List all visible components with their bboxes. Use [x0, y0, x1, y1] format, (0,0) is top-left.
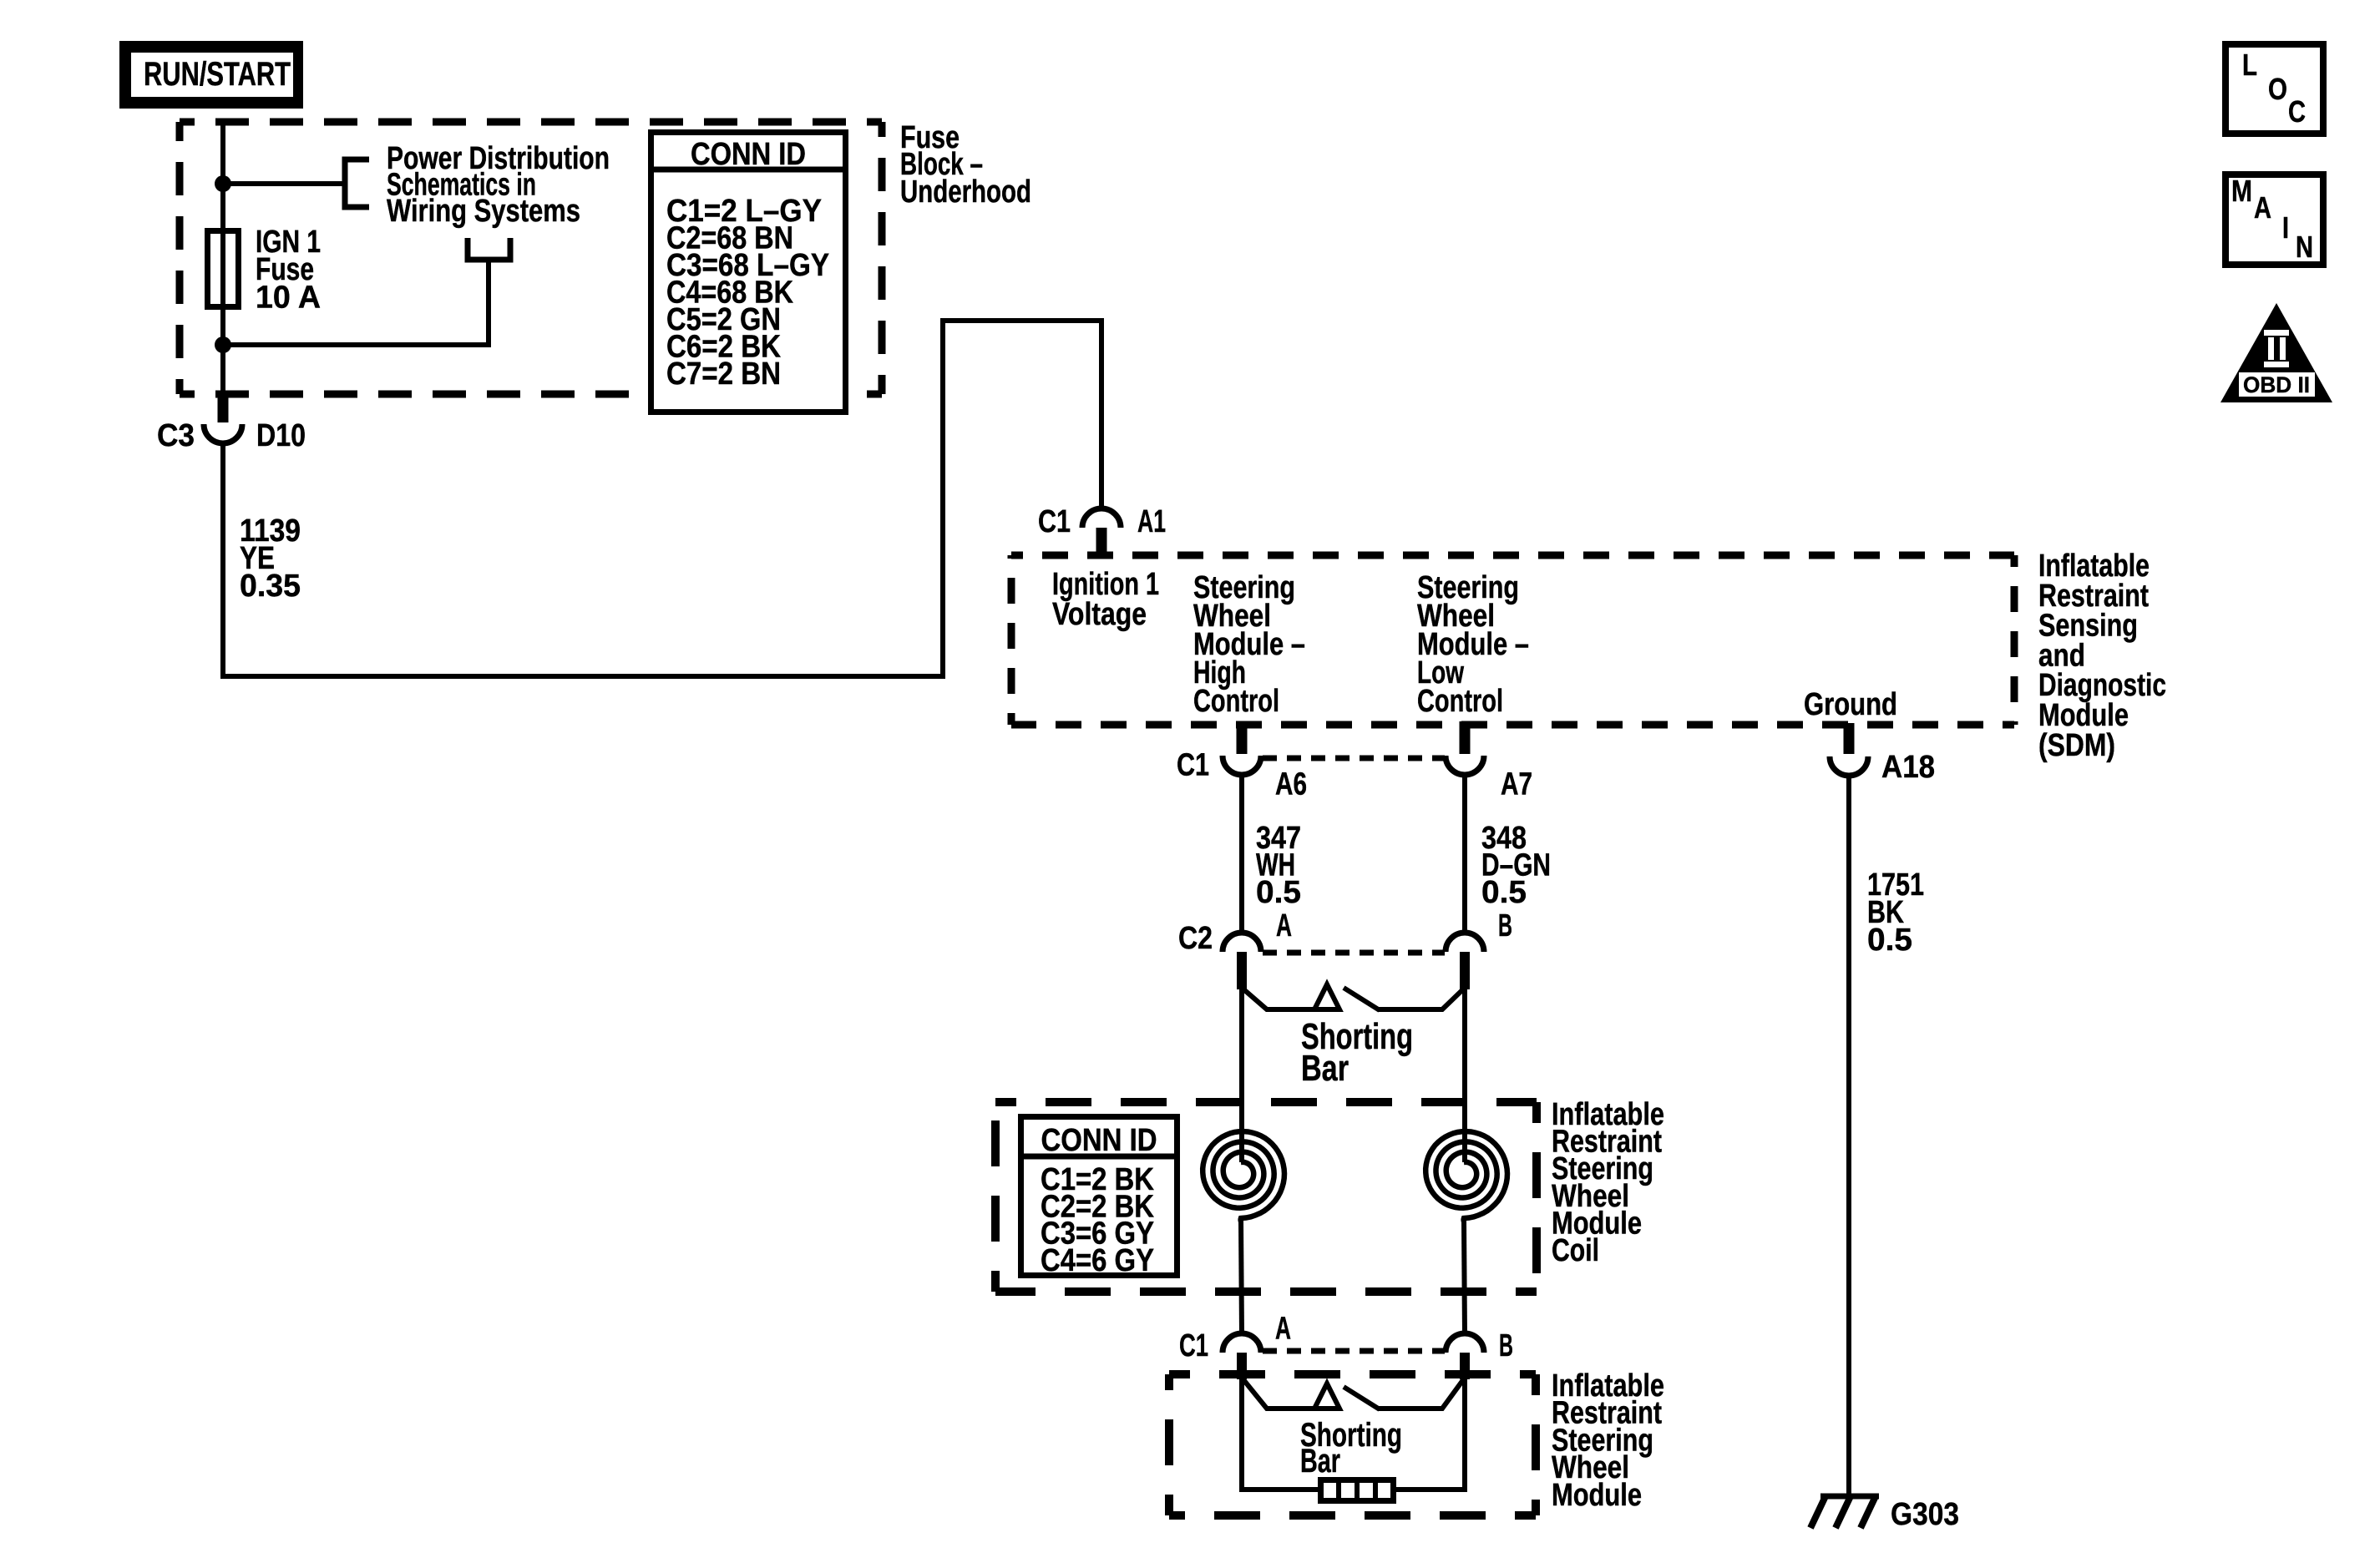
svg-text:C7=2 BN: C7=2 BN — [666, 357, 781, 392]
wire coil right to C1-B — [1464, 1221, 1465, 1334]
svg-text:Control: Control — [1193, 684, 1279, 719]
connector C1 A6 — [1237, 721, 1248, 754]
svg-text:I: I — [2282, 210, 2289, 245]
connector ID table CONN ID coil — [1021, 1117, 1177, 1276]
svg-text:(SDM): (SDM) — [2038, 728, 2115, 763]
svg-text:C1: C1 — [1038, 504, 1071, 539]
svg-text:0.5: 0.5 — [1867, 923, 1912, 958]
wire C2-A to coil — [1239, 988, 1244, 1162]
connector C2 A — [1223, 933, 1261, 952]
wire 1751 BK 0.5 ground run — [1846, 776, 1851, 1496]
svg-text:A: A — [1276, 908, 1292, 943]
svg-text:A6: A6 — [1275, 767, 1307, 802]
svg-text:M: M — [2231, 174, 2252, 208]
junction node lower — [215, 336, 231, 353]
svg-text:CONN ID: CONN ID — [1041, 1123, 1157, 1158]
shorting bar lower — [1242, 1378, 1339, 1409]
svg-text:CONN ID: CONN ID — [691, 137, 806, 172]
svg-text:10 A: 10 A — [256, 281, 321, 316]
svg-text:Coil: Coil — [1552, 1233, 1599, 1268]
connector C1 A1 — [1082, 508, 1121, 528]
svg-text:C: C — [2288, 94, 2306, 129]
svg-text:O: O — [2268, 72, 2287, 106]
svg-text:Wiring Systems: Wiring Systems — [387, 194, 580, 229]
wire 347 WH 0.5 — [1239, 775, 1244, 933]
power feed box RUN/START — [119, 41, 303, 109]
svg-text:A7: A7 — [1501, 767, 1532, 802]
steering wheel module coil dashed box — [995, 1098, 1537, 1106]
fuse block underhood dashed box — [180, 119, 882, 126]
connector dashed mate line bottom row — [1263, 1348, 1445, 1354]
connector B mate — [1446, 933, 1484, 952]
svg-text:D10: D10 — [256, 418, 306, 453]
inflatable restraint steering wheel module dashed box — [1169, 1370, 1536, 1378]
wire from RUN/START through fuse block — [220, 122, 225, 397]
junction node upper — [215, 175, 231, 192]
svg-text:B: B — [1499, 1328, 1513, 1363]
svg-text:Bar: Bar — [1300, 1443, 1340, 1480]
svg-text:A: A — [1275, 1312, 1291, 1347]
wire coil left to C1-A — [1241, 1221, 1242, 1334]
svg-text:C1: C1 — [1177, 748, 1209, 783]
svg-text:A18: A18 — [1881, 750, 1935, 785]
SDM dashed box — [1011, 552, 2014, 559]
svg-text:Ground: Ground — [1804, 687, 1897, 722]
svg-text:C4=6 GY: C4=6 GY — [1041, 1243, 1154, 1278]
wire 1139 YE 0.35 from C3 to SDM C1 — [223, 321, 1101, 676]
svg-text:RUN/START: RUN/START — [144, 56, 291, 93]
connector B steering wheel module — [1446, 1333, 1484, 1353]
wire 348 D-GN 0.5 — [1462, 775, 1467, 933]
reference bracket to Power Distribution Schematics — [345, 159, 369, 207]
wire loop through shorting bar resistor — [1242, 1378, 1465, 1490]
svg-text:C3: C3 — [157, 418, 195, 453]
off-page connector to fuse block internal — [468, 238, 510, 260]
ground symbol G303 — [1820, 1494, 1879, 1500]
svg-text:A1: A1 — [1137, 504, 1166, 539]
symbol OBD II triangle — [2220, 303, 2332, 402]
svg-text:Control: Control — [1417, 684, 1503, 719]
svg-text:N: N — [2296, 230, 2313, 264]
svg-text:A: A — [2254, 190, 2271, 225]
coil right spiral — [1425, 1131, 1507, 1222]
wire C2-B to coil — [1462, 988, 1467, 1162]
shorting bar resistor element — [1321, 1480, 1394, 1501]
svg-text:Module: Module — [1552, 1478, 1642, 1513]
connector A7 — [1460, 721, 1471, 754]
connector A18 — [1844, 723, 1855, 754]
svg-text:0.5: 0.5 — [1481, 875, 1527, 910]
connector ID table CONN ID fuse block — [651, 133, 846, 412]
svg-text:0.35: 0.35 — [240, 569, 301, 604]
svg-text:L: L — [2242, 48, 2257, 82]
svg-text:G303: G303 — [1891, 1497, 1959, 1532]
wire from off-page connector to junction — [223, 260, 489, 345]
coil left spiral — [1203, 1131, 1284, 1222]
svg-text:OBD II: OBD II — [2243, 372, 2310, 397]
svg-text:Underhood: Underhood — [900, 175, 1031, 210]
svg-text:C1: C1 — [1179, 1328, 1208, 1363]
connector dashed mate line C1 row — [1263, 756, 1445, 761]
svg-text:0.5: 0.5 — [1256, 875, 1301, 910]
connector dashed mate line C2 row — [1263, 950, 1445, 956]
shorting bar upper — [1242, 988, 1339, 1009]
symbol MAIN box — [2226, 175, 2323, 265]
connector C3 D10 — [218, 396, 229, 422]
svg-text:Voltage: Voltage — [1052, 597, 1147, 632]
symbol LOC box — [2226, 44, 2323, 134]
connector C1 A steering wheel module — [1223, 1333, 1261, 1353]
wire to power distribution reference — [223, 181, 343, 186]
svg-text:Bar: Bar — [1301, 1048, 1349, 1089]
svg-text:C2: C2 — [1178, 921, 1213, 956]
svg-text:B: B — [1498, 908, 1512, 943]
fuse IGN 1 10 A — [208, 231, 239, 307]
